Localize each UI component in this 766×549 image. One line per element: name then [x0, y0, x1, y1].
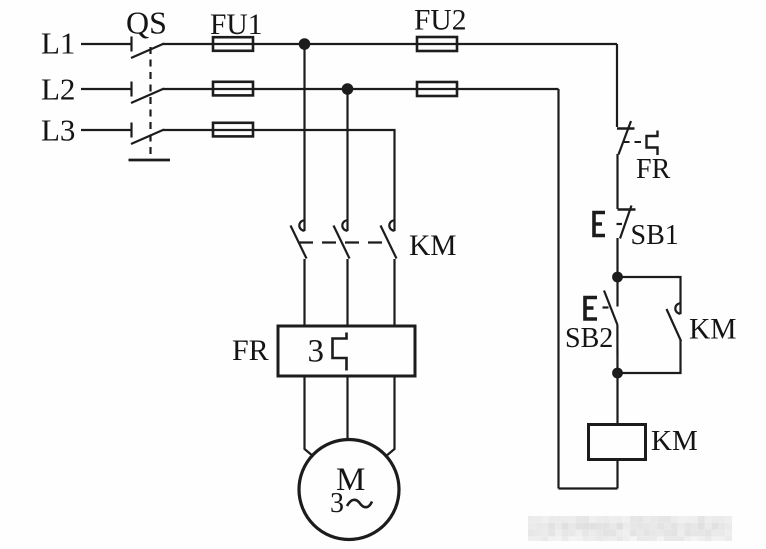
svg-text:3: 3: [330, 488, 344, 519]
svg-text:L2: L2: [41, 72, 75, 107]
svg-text:FU1: FU1: [210, 9, 262, 41]
wire FR contact to SB1: [616, 154, 618, 209]
disconnect switch QS pole 3: [131, 123, 164, 145]
fuse FU1 pole 1: [213, 37, 253, 51]
wire aux branch bottom: [618, 340, 681, 373]
fuse FU2 upper (control feed): [417, 37, 457, 51]
contactor KM main contact pole 1: [291, 220, 307, 258]
disconnect switch QS pole 1: [131, 37, 164, 59]
junction node on L2: [342, 83, 354, 95]
node B junction dot: [612, 368, 623, 379]
svg-text:FU2: FU2: [414, 5, 466, 37]
wire KM pole 3 to FR box: [393, 259, 395, 326]
contactor KM main contact pole 2: [334, 220, 350, 258]
disconnect switch QS pole 2: [131, 82, 164, 104]
wire FR box to motor phase 2: [346, 376, 348, 440]
KM main contacts mechanical linkage dashed line: [299, 241, 390, 243]
thermal overload NC contact FR: [617, 121, 635, 155]
FR contact actuator hook: [647, 131, 658, 156]
wire KM pole 2 to FR box: [346, 259, 348, 326]
svg-text:FR: FR: [636, 154, 671, 185]
wire KM coil to bottom rail: [616, 460, 618, 489]
svg-text:L1: L1: [41, 26, 75, 61]
svg-text:KM: KM: [651, 425, 698, 457]
watermark: [528, 516, 732, 541]
wire L2 feed to QS: [81, 88, 131, 90]
svg-text:SB1: SB1: [631, 220, 679, 251]
tilde of 3~: [347, 500, 372, 507]
wire L3 from QS to KM pole 3 corner: [163, 130, 395, 231]
svg-text:3: 3: [308, 334, 325, 370]
fuse FU1 pole 3: [213, 123, 253, 137]
wire FR box to motor phase 3: [386, 376, 395, 457]
thermal overload relay FR box: [278, 326, 415, 376]
QS handle bar: [129, 159, 171, 162]
wire L3 feed to QS: [81, 129, 131, 131]
wire bottom rail: [559, 487, 618, 489]
fuse FU2 lower (control return): [417, 82, 457, 96]
svg-text:QS: QS: [126, 5, 167, 41]
QS mechanical linkage dashed line: [149, 47, 151, 159]
contactor coil KM: [589, 425, 646, 460]
contactor KM auxiliary contact: [667, 303, 682, 341]
wire L1 from QS through FU1 and FU2 to right rail: [163, 43, 617, 45]
wire L2 from QS through FU1 and FU2 to return rail: [163, 88, 559, 90]
pushbutton SB2 start NO: [585, 277, 618, 325]
svg-text:KM: KM: [409, 230, 457, 262]
FR contact dashed link: [623, 141, 646, 143]
wire L2 drop to KM pole 2: [346, 89, 348, 231]
pushbutton SB1 stop NC: [594, 206, 636, 239]
wire aux branch top: [618, 277, 681, 314]
wire SB1 to node A: [616, 238, 618, 275]
node A junction dot: [612, 272, 623, 283]
svg-text:FR: FR: [232, 334, 269, 367]
junction node on L1: [299, 38, 311, 50]
FR heater element symbol: [333, 333, 347, 371]
svg-text:L3: L3: [41, 113, 75, 148]
contactor KM main contact pole 3: [381, 220, 397, 258]
wire FR box to motor phase 1: [305, 376, 314, 457]
wire SB2 to node B: [616, 325, 618, 374]
fuse FU1 pole 2: [213, 82, 253, 96]
svg-text:KM: KM: [689, 314, 737, 346]
svg-text:SB2: SB2: [565, 323, 613, 354]
wire node B to KM coil: [616, 373, 618, 424]
wire KM pole 1 to FR box: [303, 259, 305, 326]
wire right rail drop from L1: [616, 44, 618, 127]
wire return rail to L2: [557, 89, 559, 489]
motor M circle: [299, 440, 399, 540]
wire L1 drop to KM pole 1: [303, 44, 305, 231]
wire L1 feed to QS: [81, 43, 131, 45]
